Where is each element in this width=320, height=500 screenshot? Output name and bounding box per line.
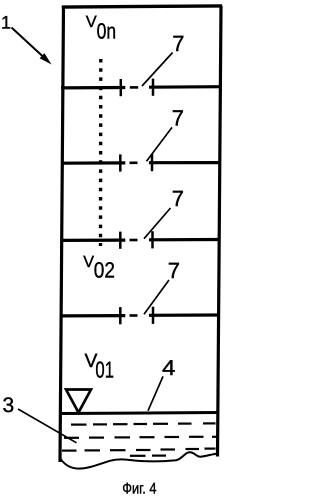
svg-text:7: 7: [172, 186, 184, 211]
svg-text:7: 7: [168, 258, 180, 283]
water level triangle symbol: [66, 390, 91, 413]
svg-text:02: 02: [94, 257, 115, 282]
svg-text:7: 7: [172, 105, 184, 130]
svg-text:7: 7: [172, 31, 184, 56]
leader line 7 to partition 2: [147, 127, 173, 161]
liquid surface line (4): [60, 413, 218, 414]
arrow leader from label 1 to vessel wall: [12, 28, 52, 65]
leader line 7 to partition 3: [144, 208, 171, 239]
svg-text:1: 1: [1, 12, 11, 32]
liquid dash row 3: [62, 449, 216, 451]
dotted vertical center line: [99, 59, 103, 246]
svg-text:Фиг. 4: Фиг. 4: [122, 481, 157, 498]
svg-text:01: 01: [95, 356, 114, 382]
svg-text:V: V: [83, 253, 94, 271]
vessel top wall: [62, 6, 222, 7]
liquid dash row 2: [64, 437, 217, 438]
label V01: [85, 350, 115, 382]
svg-text:V: V: [86, 13, 97, 31]
leader line 7 to partition 1: [142, 53, 173, 87]
svg-text:4: 4: [162, 356, 176, 380]
liquid dash row 1: [71, 423, 216, 424]
liquid dash row 4 (partial): [130, 455, 166, 457]
vessel left wall: [60, 6, 64, 462]
svg-text:0n: 0n: [97, 18, 117, 43]
partition 3 with hole: [61, 231, 219, 249]
label V0n: [86, 13, 116, 44]
vessel right wall: [218, 6, 222, 457]
leader line 4 to liquid surface: [148, 376, 163, 410]
svg-text:3: 3: [3, 394, 15, 417]
partition 4 with hole: [61, 307, 219, 325]
label V02: [83, 253, 115, 283]
partition 2 with hole: [61, 154, 220, 172]
leader line 3 to liquid: [18, 409, 77, 443]
wavy torn bottom edge: [60, 452, 217, 468]
leader line 7 to partition 4: [144, 280, 169, 314]
partition 1 with hole: [61, 79, 220, 97]
